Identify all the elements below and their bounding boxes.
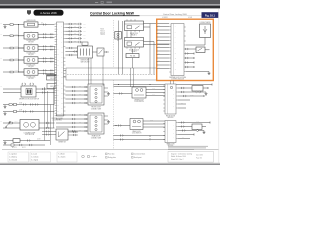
U1 pin numbers left xyxy=(57,24,59,113)
svg-text:6 = Signal: 6 = Signal xyxy=(31,159,39,161)
wire RS1 right2 xyxy=(68,134,78,136)
ground xyxy=(107,120,110,123)
connector FRONT DOOR near 2 xyxy=(85,90,86,92)
connector U3r3 xyxy=(183,95,186,97)
U4 pin numbers xyxy=(173,125,174,139)
wire U4 r2 xyxy=(178,126,192,128)
wire RS1 left1 xyxy=(42,131,56,133)
note paragraph xyxy=(168,145,208,148)
connector U3r2 xyxy=(181,91,184,93)
fuse box F32 xyxy=(47,84,60,89)
connector REAR DOOR near 4 xyxy=(85,126,86,128)
wire row3 left xyxy=(3,47,24,49)
wire pre-ECU vertical xyxy=(54,46,56,104)
connector FRONT DOOR 1 xyxy=(72,86,75,88)
connector U2r2 xyxy=(185,53,188,55)
wire U3 r4 xyxy=(178,99,190,101)
wire row1 left xyxy=(3,24,24,26)
wire U4 r4 xyxy=(178,134,194,136)
wire divider low1 xyxy=(113,135,165,137)
ground G103 xyxy=(4,141,7,144)
page bottom edge xyxy=(0,163,220,164)
terminal S3 xyxy=(107,51,108,53)
connector REAR DOOR 3 xyxy=(72,122,75,124)
terminal U3r1 xyxy=(207,87,209,89)
legend cell 1 xyxy=(8,152,29,162)
wire U1 right row1 xyxy=(65,23,79,25)
model badge pill A-Series 2006 xyxy=(34,10,64,16)
connector U2r1 xyxy=(185,48,188,50)
connector row5c xyxy=(51,70,52,75)
connector U1r row3 xyxy=(69,30,72,32)
svg-text:0.5 BR: 0.5 BR xyxy=(15,46,19,48)
U2 left pins xyxy=(169,27,171,73)
connector row4a xyxy=(43,57,46,59)
connector U1r row1 xyxy=(69,23,72,25)
relay box small RB2 xyxy=(192,124,202,130)
inline box bottomrow2 xyxy=(11,144,14,146)
wire relay verticals xyxy=(118,21,120,75)
wire U2 left 11 xyxy=(157,61,170,63)
wire r2 cont xyxy=(200,91,206,93)
connector U1r3 xyxy=(79,30,82,32)
wire bottomrow2 xyxy=(3,144,45,146)
switch S1 xyxy=(24,22,38,27)
door module U3 P1 xyxy=(165,84,176,114)
connector X1 xyxy=(115,32,122,40)
motor M2 driver door lock motor xyxy=(24,33,38,39)
wire divider to C2 xyxy=(113,125,130,127)
switch unit SW2 xyxy=(130,119,143,130)
connector REAR DOOR near 5 xyxy=(85,130,86,132)
legend title block xyxy=(168,152,214,163)
fuse midrow1 xyxy=(9,104,12,106)
wire U2 right row5 xyxy=(186,66,194,68)
connector U2r3 xyxy=(185,57,188,59)
connector REAR DOOR 1 xyxy=(72,114,75,116)
connector REAR DOOR 4 xyxy=(72,126,75,128)
K1 pin stubs xyxy=(127,19,140,32)
svg-text:X4/1: X4/1 xyxy=(83,24,86,26)
svg-text:0.5 GR: 0.5 GR xyxy=(190,94,194,96)
wire U4r3 cont xyxy=(198,130,204,132)
relay box small RB1 xyxy=(192,86,203,92)
motor M3 front pass door lock motor xyxy=(24,45,38,51)
wire FRONT DOOR l2 xyxy=(65,90,88,92)
switch S3 xyxy=(97,48,104,56)
wire U1 to JB1 row1 xyxy=(65,47,77,49)
connector RS1b xyxy=(46,134,49,136)
svg-text:= splice: = splice xyxy=(92,156,97,158)
wire U2 left 8 xyxy=(157,50,170,52)
connector FRONT DOOR near 1 xyxy=(85,86,86,88)
motor M5 rear right door lock motor xyxy=(24,69,38,75)
actuator M7 xyxy=(200,24,211,38)
connector U1r6 xyxy=(79,41,82,43)
svg-text:0.5 BR: 0.5 BR xyxy=(15,34,19,36)
svg-text:T50/6: T50/6 xyxy=(100,29,104,31)
connector U4r2 xyxy=(181,126,184,128)
connector REAR DOOR 2 xyxy=(72,118,75,120)
connector U1r row5 xyxy=(69,37,72,39)
switch S5 xyxy=(5,121,10,127)
terminal end 5 xyxy=(193,66,195,68)
svg-text:X1: X1 xyxy=(117,40,119,42)
connector M6a xyxy=(46,122,49,124)
wire FRONT DOOR l4 xyxy=(65,98,88,100)
ground G102 xyxy=(4,112,7,115)
svg-text:IGNITION SW: IGNITION SW xyxy=(26,20,36,22)
wire U2 bottom long xyxy=(186,71,209,73)
connector U2r5 xyxy=(185,66,188,68)
wire U1 right row2 xyxy=(65,27,79,29)
legend mini items xyxy=(149,135,151,137)
svg-text:LOCK SWITCH: LOCK SWITCH xyxy=(132,133,141,135)
svg-text:A-Series 2006: A-Series 2006 xyxy=(40,11,57,15)
wire row2 left xyxy=(3,35,24,37)
switch S4 xyxy=(196,47,205,53)
K2 pin stubs xyxy=(127,47,140,49)
svg-text:Page 134: Page 134 xyxy=(196,157,202,159)
svg-text:X4/5: X4/5 xyxy=(83,38,86,40)
wire C right 1 xyxy=(146,89,165,91)
U1 pin numbers right xyxy=(61,26,63,115)
wire U1 to JB1 row3 xyxy=(65,54,77,56)
wire FRONT DOOR r3 xyxy=(104,95,108,97)
connector REAR DOOR near 1 xyxy=(85,114,86,116)
ECU U2 door control unit xyxy=(171,24,184,76)
ground xyxy=(107,92,110,95)
wire relay to ECU2 xyxy=(144,23,170,25)
wire U2 right row2 xyxy=(186,53,194,55)
wire C right 2 xyxy=(146,92,165,94)
wire midrow2 xyxy=(3,111,55,113)
wire C2 right3 xyxy=(143,126,165,128)
connector bottomrow2 xyxy=(19,144,22,146)
connector U4r3 xyxy=(182,130,185,132)
wire REAR DOOR l2 xyxy=(56,118,88,120)
section divider dashed line xyxy=(112,20,114,149)
wire S3 drop xyxy=(102,56,104,86)
wire C2 right1 xyxy=(143,120,165,122)
wire JB1 drop b xyxy=(90,58,92,86)
wire U2 left 1 xyxy=(157,26,170,28)
wire divider low2 xyxy=(113,139,165,141)
title underline rule xyxy=(90,14,140,17)
connector U1r1 xyxy=(79,23,82,25)
ECU U1 central locking control unit xyxy=(57,22,64,116)
U2 right pins xyxy=(184,27,186,72)
svg-text:DRIVER DOOR LOCK SWITCH: DRIVER DOOR LOCK SWITCH xyxy=(19,99,39,101)
legend symbols xyxy=(82,155,85,158)
wire U2 left 4 xyxy=(157,36,170,38)
svg-text:T50/24: T50/24 xyxy=(100,34,105,36)
svg-text:0.5 R: 0.5 R xyxy=(19,109,22,111)
wire M6 left xyxy=(3,122,20,124)
wire fuse drop a xyxy=(130,68,132,87)
svg-text:5 = Unlock: 5 = Unlock xyxy=(31,157,39,159)
connector above J1 b xyxy=(30,83,34,85)
module FRONT DOOR xyxy=(88,84,104,105)
wire row4 right xyxy=(38,57,55,59)
fuse row3 xyxy=(10,47,13,49)
fuse row5 xyxy=(10,71,13,73)
connector row1 xyxy=(43,24,46,26)
window chrome top bar xyxy=(0,0,220,4)
wire U4 r1 xyxy=(178,122,210,124)
harness dashed centerline xyxy=(67,73,156,75)
svg-text:MODULE: MODULE xyxy=(168,117,174,119)
wire JB1 to S3 xyxy=(93,51,98,53)
connector row2b xyxy=(43,36,46,38)
wire U2 left 9 xyxy=(157,54,170,56)
connector U1r2 xyxy=(79,26,82,28)
legend cell 4 xyxy=(106,153,108,155)
connector above J1 a xyxy=(22,83,26,85)
wire row2 right xyxy=(38,33,55,35)
wire REAR DOOR r2 xyxy=(104,119,108,121)
relay K1 door lock relay xyxy=(125,21,144,31)
inline box midrow2 xyxy=(14,110,17,112)
wire divider to C y95 xyxy=(113,93,132,95)
U2 pin numbers xyxy=(175,26,177,70)
connector RS1a xyxy=(46,131,49,133)
relay module RS1 xyxy=(56,129,68,140)
wire U2 right row3 xyxy=(186,57,194,59)
connector FRONT DOOR 5 xyxy=(72,102,75,104)
U4 pins xyxy=(163,123,178,140)
wire U2 left 3 xyxy=(157,33,170,35)
connector C2-in xyxy=(118,125,121,127)
connector U1r5 xyxy=(79,37,82,39)
motor M4 rear left door lock motor xyxy=(24,57,38,63)
connector RS1c xyxy=(73,131,76,133)
switch S2 xyxy=(13,139,20,143)
wire U1 right row6 xyxy=(65,41,79,43)
connector J1b xyxy=(42,92,45,94)
wire REAR DOOR l3 xyxy=(56,122,88,124)
inline connector above JB1 xyxy=(82,42,88,45)
connector FRONT DOOR 4 xyxy=(72,98,75,100)
connector JB1a xyxy=(69,47,72,49)
wire U2 left 5 xyxy=(157,40,170,42)
svg-text:0.5: 0.5 xyxy=(41,23,43,25)
svg-text:T50/18: T50/18 xyxy=(100,32,105,34)
svg-text:0.5 B: 0.5 B xyxy=(19,102,22,104)
connector U2r4 xyxy=(185,62,188,64)
wire RS1 right1 xyxy=(68,131,78,133)
wire fuse drop b xyxy=(133,68,135,87)
wire ECU to harness b xyxy=(64,76,67,78)
wire U4 r3 xyxy=(178,130,196,132)
wire row5 left xyxy=(3,71,24,73)
wire REAR DOOR l5 xyxy=(56,130,88,132)
svg-text:Central Door Locking 2006: Central Door Locking 2006 xyxy=(163,13,188,16)
wire FRONT DOOR r1 xyxy=(104,87,108,89)
connector U1r row6 xyxy=(69,41,72,43)
wire C right 3 xyxy=(146,95,165,97)
wire U2 left 10 xyxy=(157,57,170,59)
terminal end 3 xyxy=(193,57,195,59)
fuse F23 xyxy=(10,24,13,26)
wire U2 to P1 b xyxy=(173,81,175,84)
wire U1 right row5 xyxy=(65,37,79,39)
wire U2 left 13 xyxy=(157,68,170,70)
connector U3r1 xyxy=(181,87,184,89)
svg-text:SWITCH UNIT: SWITCH UNIT xyxy=(81,61,90,63)
ground xyxy=(208,72,211,75)
wire S3 end xyxy=(104,51,107,53)
connector low1 xyxy=(120,135,123,137)
svg-text:FRONT DOOR: FRONT DOOR xyxy=(91,107,100,109)
U1 right pins xyxy=(64,24,66,115)
svg-text:INHIBIT SW: INHIBIT SW xyxy=(58,142,66,144)
U3 pins xyxy=(163,86,178,111)
svg-text:0.5 BR/W: 0.5 BR/W xyxy=(162,17,168,19)
terminal end 4 xyxy=(193,62,195,64)
connector row4b xyxy=(43,61,46,63)
door lock assembly J1 xyxy=(21,86,36,97)
fuse F11 xyxy=(126,54,139,58)
wire row4 left xyxy=(3,59,24,61)
legend cell 5 xyxy=(132,153,134,155)
connector FRONT DOOR near 5 xyxy=(85,102,86,104)
terminal U3r3 xyxy=(203,95,205,97)
wire REAR DOOR l1 xyxy=(56,114,88,116)
connector REAR DOOR near 2 xyxy=(85,118,86,120)
terminal labels far left xyxy=(1,23,3,124)
highlight box orange xyxy=(157,19,214,80)
connector row5b xyxy=(43,73,46,75)
svg-text:T50/12: T50/12 xyxy=(100,30,105,32)
svg-text:LOCK MOTOR: LOCK MOTOR xyxy=(25,134,34,136)
svg-text:Fig. 10.1: Fig. 10.1 xyxy=(205,14,216,17)
terminal U4r1 xyxy=(209,122,211,124)
wire REAR DOOR r1 xyxy=(104,115,108,117)
connector U1r row2 xyxy=(69,27,72,29)
svg-text:X4/2: X4/2 xyxy=(83,27,86,29)
connector REAR DOOR 5 xyxy=(72,130,75,132)
wire U1 right row3 xyxy=(65,30,79,32)
wire U2 left 6 xyxy=(157,43,170,45)
wire U2 right y49 xyxy=(186,48,196,50)
relay K2 door unlock relay xyxy=(125,38,144,48)
left vertical bus wire xyxy=(18,25,20,73)
harness channel xyxy=(66,68,157,80)
legend cell 3 xyxy=(57,152,77,162)
wire REAR DOOR l4 xyxy=(56,126,88,128)
wire ECU to harness a xyxy=(64,70,67,72)
wire U2 to P1 a xyxy=(170,81,172,84)
splice circles r2 xyxy=(196,91,198,93)
connector FRONT DOOR near 4 xyxy=(85,98,86,100)
legend cell 2 xyxy=(30,152,51,162)
door module U4 P2 xyxy=(165,121,176,143)
connector row4c xyxy=(51,58,52,63)
svg-text:B-221: B-221 xyxy=(22,147,26,149)
fuse box F31 xyxy=(47,75,61,81)
fuse row4 xyxy=(10,59,13,61)
U1 left pins xyxy=(55,24,57,116)
terminal U4r4 xyxy=(193,134,195,136)
svg-text:0.5 B: 0.5 B xyxy=(150,119,153,121)
connector row5a xyxy=(43,69,46,71)
wire U3 r5 xyxy=(178,103,186,105)
wire M6 right xyxy=(39,122,55,124)
connector row3c xyxy=(51,46,52,51)
connector FRONT DOOR 3 xyxy=(72,94,75,96)
connector midrow1b xyxy=(35,104,38,106)
connector REAR DOOR near 3 xyxy=(85,122,86,124)
wire row5 right xyxy=(38,69,55,71)
wire U3 r6 xyxy=(178,107,186,109)
trunk lock motor M6 xyxy=(20,120,39,131)
ground G101 xyxy=(4,25,7,28)
wire FRONT DOOR l5 xyxy=(65,102,88,104)
connector bottomrow2b xyxy=(29,144,32,146)
svg-text:0.5 BR: 0.5 BR xyxy=(15,70,19,72)
wire C2 right2 xyxy=(143,123,165,125)
wire long row y86.5 xyxy=(113,86,165,88)
wire bottomrow xyxy=(3,140,50,142)
junction box JB1 xyxy=(78,46,93,58)
svg-text:X4/3: X4/3 xyxy=(83,31,86,33)
svg-text:CONTROL MODULE: CONTROL MODULE xyxy=(171,79,184,81)
wire REAR DOOR r3 xyxy=(104,123,108,125)
terminal end y84.5 xyxy=(211,84,213,86)
wire FRONT DOOR l3 xyxy=(65,94,88,96)
svg-text:Central Door Locking NEW: Central Door Locking NEW xyxy=(90,11,135,15)
wire U2 left 7 xyxy=(157,47,170,49)
fuse M6 xyxy=(9,122,12,124)
inline box midrow1 xyxy=(14,103,17,105)
connector row2c xyxy=(51,33,52,38)
connector row2a xyxy=(43,33,46,35)
window chrome toolbar glyphs xyxy=(95,1,98,4)
wire RS1 left2 xyxy=(42,134,56,136)
terminal end 2 xyxy=(193,53,195,55)
wire U4 r5 xyxy=(178,138,190,140)
splice circles U4r3 xyxy=(197,130,199,132)
connector low2 xyxy=(120,139,123,141)
svg-text:0.5 R: 0.5 R xyxy=(152,94,155,96)
svg-text:LOCK SWITCH: LOCK SWITCH xyxy=(134,101,143,103)
wire collector verticals xyxy=(44,87,46,141)
figure number tab Fig. 10.1 xyxy=(202,12,219,18)
connector FRONT DOOR 2 xyxy=(72,90,75,92)
connector U1r4 xyxy=(79,34,82,36)
connector U1r row4 xyxy=(69,34,72,36)
wire U3 r3 xyxy=(178,95,204,97)
svg-text:LOCKING ECU: LOCKING ECU xyxy=(52,119,62,121)
wire J1 right xyxy=(36,88,55,90)
connector bottomrow xyxy=(27,140,30,142)
ground G108 xyxy=(203,131,206,134)
wire U1 to JB1 row2 xyxy=(65,51,77,53)
page right edge line xyxy=(217,8,220,163)
wire long row y84.5 xyxy=(113,84,212,86)
connector midrow1c xyxy=(30,104,33,106)
svg-text:MOTOR: MOTOR xyxy=(28,78,33,80)
connector M6b xyxy=(46,127,49,129)
wire U2 right row4 xyxy=(186,62,194,64)
svg-text:0.5 B: 0.5 B xyxy=(152,88,155,90)
junction dots left bus xyxy=(18,24,19,25)
ground G109 xyxy=(4,105,7,108)
svg-text:0.5 BR: 0.5 BR xyxy=(15,58,19,60)
svg-text:X4/4: X4/4 xyxy=(83,34,86,36)
connector JB1c xyxy=(69,54,72,56)
